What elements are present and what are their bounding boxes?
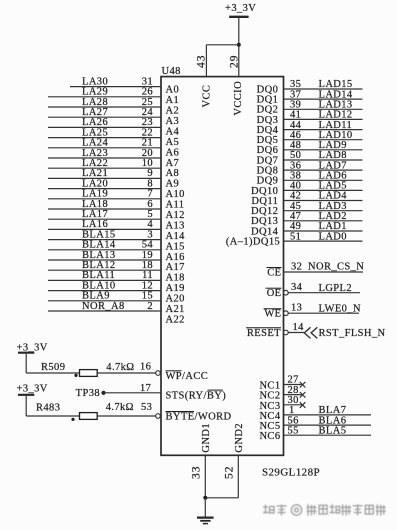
svg-text:A2: A2 xyxy=(166,106,180,117)
svg-text:U48: U48 xyxy=(162,66,181,77)
svg-text:GND1: GND1 xyxy=(201,423,212,453)
svg-text:OE: OE xyxy=(267,288,282,299)
svg-text:GND2: GND2 xyxy=(234,423,245,453)
svg-text:33: 33 xyxy=(191,466,203,480)
svg-text:4.7kΩ: 4.7kΩ xyxy=(106,362,134,373)
svg-text:S29GL128P: S29GL128P xyxy=(262,467,320,479)
svg-text:16: 16 xyxy=(140,362,151,373)
svg-text:+3_3V: +3_3V xyxy=(17,383,48,394)
svg-text:A21: A21 xyxy=(166,304,185,315)
svg-text:A13: A13 xyxy=(166,220,185,231)
svg-text:NOR_CS_N: NOR_CS_N xyxy=(308,262,364,273)
svg-text:VCC: VCC xyxy=(201,85,212,108)
svg-text:NOR_A8: NOR_A8 xyxy=(82,301,125,312)
svg-text:NC6: NC6 xyxy=(259,431,280,442)
svg-text:17: 17 xyxy=(140,383,151,394)
svg-text:A3: A3 xyxy=(166,116,180,127)
svg-text:52: 52 xyxy=(224,466,236,480)
svg-text:A4: A4 xyxy=(166,126,180,137)
svg-text:+3_3V: +3_3V xyxy=(225,3,256,14)
svg-text:BLA5: BLA5 xyxy=(319,425,347,436)
svg-text:A18: A18 xyxy=(166,273,185,284)
svg-text:43: 43 xyxy=(195,54,207,67)
svg-text:4.7kΩ: 4.7kΩ xyxy=(106,402,134,413)
svg-text:14: 14 xyxy=(293,322,305,333)
svg-text:A15: A15 xyxy=(166,241,185,252)
svg-text:13: 13 xyxy=(291,303,302,314)
svg-text:A5: A5 xyxy=(166,137,180,148)
svg-text:A12: A12 xyxy=(166,210,185,221)
svg-text:LAD0: LAD0 xyxy=(319,231,347,242)
svg-text:VCCIO: VCCIO xyxy=(233,81,244,116)
svg-text:WE: WE xyxy=(264,309,281,320)
svg-text:53: 53 xyxy=(141,402,152,413)
svg-text:A16: A16 xyxy=(166,252,185,263)
svg-text:TP38: TP38 xyxy=(76,388,100,399)
svg-text:34: 34 xyxy=(291,282,303,293)
svg-text:R509: R509 xyxy=(41,362,65,373)
svg-text:LWE0_N: LWE0_N xyxy=(319,303,361,314)
svg-text:STS(RY/BY): STS(RY/BY) xyxy=(166,390,227,401)
svg-text:A7: A7 xyxy=(166,158,180,169)
svg-text:51: 51 xyxy=(290,231,301,242)
svg-text:A8: A8 xyxy=(166,168,180,179)
svg-text:LGPL2: LGPL2 xyxy=(319,283,353,294)
svg-text:A10: A10 xyxy=(166,189,185,200)
svg-text:29: 29 xyxy=(228,54,240,67)
svg-text:BYTE/WORD: BYTE/WORD xyxy=(166,412,232,423)
svg-text:A22: A22 xyxy=(166,315,185,326)
svg-text:A14: A14 xyxy=(166,231,186,242)
svg-text:RST_FLSH_N: RST_FLSH_N xyxy=(319,328,386,339)
svg-text:A11: A11 xyxy=(166,200,185,211)
svg-text:A19: A19 xyxy=(166,283,185,294)
svg-text:A6: A6 xyxy=(166,147,180,158)
svg-text:A0: A0 xyxy=(166,85,180,96)
svg-text:32: 32 xyxy=(291,262,302,273)
svg-text:A17: A17 xyxy=(166,262,185,273)
svg-text:2: 2 xyxy=(147,301,153,312)
svg-text:A20: A20 xyxy=(166,294,185,305)
svg-text:R483: R483 xyxy=(36,402,60,413)
svg-text:(A–1)DQ15: (A–1)DQ15 xyxy=(226,237,280,248)
svg-text:A1: A1 xyxy=(166,95,180,106)
svg-text:A9: A9 xyxy=(166,179,180,190)
svg-text:RESET: RESET xyxy=(247,328,281,339)
svg-text:55: 55 xyxy=(288,425,299,436)
svg-text:WP/ACC: WP/ACC xyxy=(166,371,209,382)
svg-text:CE: CE xyxy=(267,268,281,279)
